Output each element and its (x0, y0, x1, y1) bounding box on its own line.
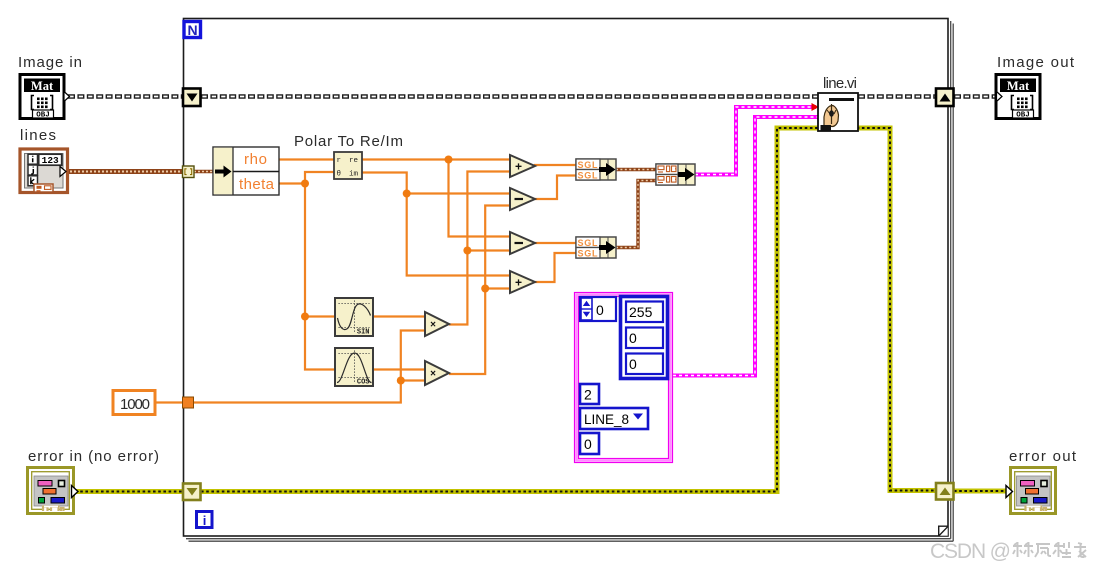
loop resize corner (939, 526, 949, 536)
svg-text:CSDN @: CSDN @ (930, 540, 1011, 563)
wire: orange rho out to Polar r input (155, 160, 576, 403)
error in terminal icon (28, 468, 79, 514)
CSDN watermark (930, 540, 1086, 563)
wire: cluster brown bundle3 out up to bundle2 lower (616, 181, 656, 248)
error out terminal icon (1006, 468, 1056, 514)
wire: error wire right segment to error out (954, 489, 1009, 494)
bundle3 with SGL conversions (576, 237, 616, 258)
svg-text:0: 0 (629, 330, 637, 346)
wire: re out to +1 upper, and down to -3 upper (361, 160, 510, 237)
wire: +4 out to bundle3 lower (535, 253, 576, 282)
svg-text:i: i (203, 513, 207, 528)
svg-text:Image in: Image in (18, 54, 82, 71)
image tunnel left (down arrow) (183, 89, 201, 107)
for-loop frame stacked shadow lines (186, 21, 953, 541)
svg-text:1000: 1000 (120, 396, 150, 413)
svg-text:+: + (515, 276, 522, 290)
multiply function xsin (425, 312, 449, 336)
svg-text:0: 0 (584, 436, 592, 452)
array constant 255 0 0 (621, 297, 668, 379)
numeric constant 1000 (113, 391, 155, 415)
svg-text:rho: rho (244, 151, 267, 168)
svg-text:re: re (349, 157, 358, 165)
svg-text:error out: error out (1009, 448, 1077, 465)
subtract function -3 (510, 232, 535, 254)
svg-text:theta: theta (239, 176, 275, 193)
sine block SIN (335, 298, 373, 337)
bundle1 with SGL conversions (576, 159, 616, 180)
array index spinner (580, 297, 616, 321)
wire: COS out to xcos upper (373, 368, 425, 370)
wire: dashed image wire segments (68, 94, 995, 98)
unbundle by name block rho/theta (213, 147, 279, 195)
numeric constant 0 (580, 433, 599, 454)
svg-text:SGL: SGL (578, 160, 599, 170)
svg-text:OBJ: OBJ (1016, 112, 1030, 120)
svg-text:Mat: Mat (1007, 79, 1030, 93)
bundle2 merge clusters (656, 164, 695, 185)
wire: cluster brown bundle1 out to bundle2 (616, 168, 656, 171)
svg-text:error in (no error): error in (no error) (28, 448, 159, 465)
svg-text:255: 255 (629, 304, 653, 320)
wire: error wire left segment (75, 489, 183, 494)
svg-text:lines: lines (20, 127, 56, 144)
svg-text:COS: COS (357, 379, 370, 387)
svg-text:OBJ: OBJ (36, 112, 50, 120)
wire: magenta cluster constant to line.vi (673, 117, 818, 376)
svg-text:Polar To Re/Im: Polar To Re/Im (294, 133, 403, 150)
Image out terminal icon (996, 75, 1040, 120)
svg-text:Image out: Image out (997, 54, 1075, 71)
wire: im out down to -2 upper and +4 upper (361, 173, 510, 276)
lines array terminal icon (20, 149, 68, 193)
svg-text:×: × (430, 369, 436, 380)
multiply function xcos (425, 361, 449, 385)
svg-text:LINE_8: LINE_8 (584, 412, 629, 427)
wire: lines array thick brown wire terminal to tunnel (66, 169, 183, 174)
add function +4 (510, 271, 535, 293)
for-loop frame N (184, 19, 949, 537)
svg-text:0: 0 (629, 356, 637, 372)
orange square tunnel for 1000 (183, 397, 194, 408)
svg-text:×: × (430, 320, 436, 331)
indexing tunnel on loop border for lines array (183, 166, 195, 178)
enum constant LINE_8 (580, 408, 648, 429)
wire: -2 out to bundle1 lower (535, 176, 576, 200)
svg-text:N: N (187, 22, 197, 38)
wire: error wire inside loop (201, 128, 936, 492)
svg-text:r: r (337, 157, 342, 165)
svg-text:+: + (515, 160, 522, 174)
wire: lines dotted brown after tunnel (194, 170, 215, 173)
subtract function -2 (510, 188, 535, 210)
svg-text:SGL: SGL (578, 248, 599, 258)
svg-text:2: 2 (584, 387, 592, 403)
add function +1 (510, 155, 535, 177)
wire: magenta bundle2 out to line.vi (695, 107, 816, 175)
iteration terminal i (197, 512, 213, 529)
orange junction dots (301, 156, 489, 385)
svg-text:line.vi: line.vi (823, 75, 857, 92)
svg-text:123: 123 (42, 155, 59, 166)
red arrow into line.vi (812, 103, 820, 111)
wire: -3 out to bundle3 (535, 242, 576, 244)
svg-text:SIN: SIN (357, 329, 370, 337)
error tunnel left (down arrow) (183, 484, 201, 501)
svg-text:Mat: Mat (31, 79, 54, 93)
wire: +1 out to bundle1 (535, 165, 576, 166)
cluster constant pink box (575, 293, 673, 463)
cosine block COS (335, 348, 373, 387)
svg-text:im: im (349, 171, 359, 179)
svg-text:SGL: SGL (578, 238, 599, 248)
wire: 1000 constant to multiplier lower inputs (155, 331, 425, 403)
numeric constant 2 (580, 384, 599, 404)
image tunnel right (up arrow) (936, 89, 954, 107)
wire: theta out, junction, to Polar theta input and down to SIN/COS (279, 172, 335, 370)
svg-text:θ: θ (337, 171, 342, 179)
Polar To Re/Im block (334, 152, 362, 179)
svg-text:0: 0 (596, 302, 604, 318)
wire: xcos out up to -2 lower and +4 lower (449, 206, 510, 375)
Image in terminal icon (20, 75, 70, 120)
loop count terminal N (184, 22, 201, 39)
error tunnel right (up arrow) (936, 483, 954, 500)
svg-text:SGL: SGL (578, 170, 599, 180)
line.vi subVI icon (818, 93, 858, 131)
wire: xsin out up to +1 lower and -3 lower (449, 172, 510, 325)
wire: SIN out to xsin upper (373, 315, 425, 317)
